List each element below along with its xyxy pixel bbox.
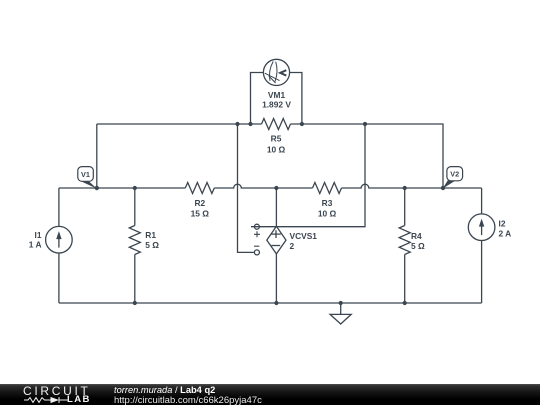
- CircuitLab logo icon resistor and diode: [22, 395, 92, 405]
- footer credit text: [114, 385, 215, 395]
- svg-text:R1: R1: [145, 230, 156, 240]
- wire top rail right segment with corner down to V2 node: [291, 124, 444, 188]
- resistor R2: [185, 183, 214, 219]
- svg-text:VCVS1: VCVS1: [290, 231, 318, 241]
- resistor R4: [399, 188, 425, 303]
- wire V1 row middle with hop over sense wire: [214, 184, 312, 188]
- node dot V1 row VCVS1 output tap: [274, 186, 278, 190]
- resistor R3: [313, 183, 342, 219]
- wire V2 row right segment with hop over sense wire: [342, 184, 482, 188]
- svg-text:2 A: 2 A: [499, 229, 512, 239]
- wire right rail lower: [481, 241, 483, 304]
- node dot top rail sense plus tap: [363, 122, 367, 126]
- node dot bottom rail R1: [133, 301, 137, 305]
- current source I1: [29, 226, 72, 253]
- node dot V2: [441, 186, 445, 190]
- node dot V1 row R1 tap: [133, 186, 137, 190]
- svg-text:1 A: 1 A: [29, 239, 42, 249]
- node dot top rail VM1 right: [300, 122, 304, 126]
- wire vertical from top rail down to V1 node: [96, 124, 98, 188]
- svg-text:I2: I2: [499, 218, 506, 228]
- wire sense minus: from top rail down and right to VCVS1 minus terminal: [238, 124, 255, 252]
- svg-text:5 Ω: 5 Ω: [411, 241, 425, 251]
- net flag V2: [443, 167, 463, 189]
- CircuitLab logo wordmark CIRCUIT: [23, 384, 91, 398]
- wire left rail upper: [58, 188, 60, 226]
- wire sense plus: from top rail down and left to VCVS1 plus terminal: [251, 124, 365, 227]
- node dot bottom rail R4: [403, 301, 407, 305]
- footer bar: [0, 384, 540, 405]
- svg-text:10 Ω: 10 Ω: [318, 209, 337, 219]
- node dot bottom rail ground: [339, 301, 343, 305]
- resistor R1: [129, 188, 159, 303]
- current source I2: [468, 214, 511, 241]
- wire V1 row left segment: [59, 187, 185, 189]
- ground: [330, 303, 351, 324]
- svg-text:1.892 V: 1.892 V: [262, 100, 291, 110]
- svg-text:V2: V2: [450, 170, 459, 179]
- wire right rail upper: [481, 188, 483, 214]
- wire top rail left segment: [97, 123, 262, 125]
- node dot top rail sense minus tap: [235, 122, 239, 126]
- svg-text:VM1: VM1: [268, 90, 286, 100]
- net flag V1: [78, 167, 97, 189]
- voltmeter VM1: [251, 59, 302, 124]
- svg-text:15 Ω: 15 Ω: [191, 209, 210, 219]
- svg-text:R4: R4: [411, 231, 422, 241]
- svg-text:R3: R3: [322, 198, 333, 208]
- svg-text:2: 2: [290, 241, 295, 251]
- wire left rail lower: [58, 253, 60, 303]
- wire bottom rail: [59, 302, 482, 304]
- node dot V1 row R4 tap: [403, 186, 407, 190]
- CircuitLab logo wordmark LAB: [67, 394, 91, 405]
- svg-text:5 Ω: 5 Ω: [145, 240, 159, 250]
- node dot top rail VM1 left: [248, 122, 252, 126]
- svg-text:V1: V1: [81, 170, 90, 179]
- dependent source VCVS1: [254, 188, 317, 303]
- footer url text: [114, 395, 262, 405]
- svg-text:R2: R2: [194, 198, 205, 208]
- svg-text:R5: R5: [271, 134, 282, 144]
- node dot bottom rail VCVS1: [274, 301, 278, 305]
- resistor R5: [262, 119, 291, 155]
- svg-text:10 Ω: 10 Ω: [267, 144, 286, 154]
- node dot V1: [95, 186, 99, 190]
